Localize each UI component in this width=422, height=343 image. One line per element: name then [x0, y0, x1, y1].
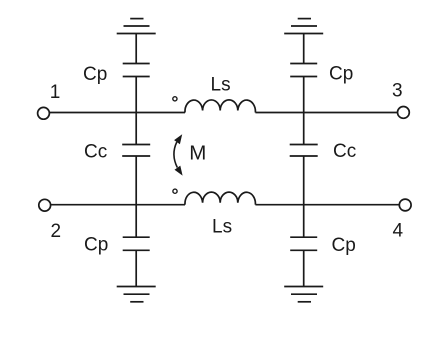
capacitor Cp (bottom right): [290, 237, 317, 250]
wire ground to Cp top-right: [303, 34, 305, 64]
wire ground to Cp top-left: [135, 34, 137, 64]
ground (top right): [284, 19, 323, 34]
inductor Ls (bottom): [185, 192, 255, 205]
svg-text:3: 3: [392, 81, 403, 102]
svg-text:M: M: [189, 141, 206, 164]
wire Ls to node D: [255, 204, 303, 206]
capacitor Cc (left): [122, 145, 150, 157]
wire node B to port 3: [304, 112, 398, 114]
svg-text:2: 2: [51, 221, 62, 242]
mutual coupling arrow M: [174, 134, 183, 175]
capacitor Cp (top right): [290, 64, 317, 77]
capacitor Cp (bottom left): [123, 237, 150, 250]
svg-text:Cp: Cp: [329, 64, 353, 85]
wire Cp to ground bottom-left: [135, 250, 137, 286]
svg-text:Cc: Cc: [84, 142, 107, 163]
svg-text:4: 4: [393, 221, 404, 242]
wire Ls to node B: [255, 112, 303, 114]
port 1: [38, 107, 50, 119]
capacitor Cp (top left): [123, 64, 150, 77]
wire node B to Cc right: [303, 113, 305, 145]
port 4: [399, 199, 411, 211]
svg-text:Cc: Cc: [333, 141, 356, 162]
wire node D to port 4: [304, 204, 400, 206]
wire node C to Cp bottom-left: [135, 205, 137, 238]
wire Cc left to node C: [135, 156, 137, 205]
wire node D to Cp bottom-right: [303, 205, 305, 238]
svg-text:Cp: Cp: [332, 235, 356, 256]
ground (bottom right): [284, 287, 323, 302]
svg-text:Cp: Cp: [84, 235, 108, 256]
wire port1 to Ls top: [50, 112, 185, 114]
svg-text:Ls: Ls: [211, 75, 231, 96]
ground (bottom left): [117, 287, 156, 302]
wire Cp to ground bottom-right: [303, 250, 305, 286]
polarity dot (top Ls): [173, 97, 177, 101]
svg-text:1: 1: [50, 82, 61, 103]
wire Cp to node A: [135, 77, 137, 113]
port 2: [39, 199, 51, 211]
wire Cp to node B: [303, 77, 305, 113]
wire Cc right to node D: [303, 156, 305, 205]
wire node A to Cc left: [135, 113, 137, 145]
wire port2 to Ls bottom: [51, 204, 185, 206]
capacitor Cc (right): [290, 145, 318, 157]
inductor Ls (top): [185, 100, 255, 113]
polarity dot (bottom Ls): [173, 189, 177, 193]
svg-text:Cp: Cp: [83, 64, 107, 85]
svg-text:Ls: Ls: [212, 216, 232, 237]
ground (top left): [117, 19, 156, 34]
port 3: [398, 107, 410, 119]
